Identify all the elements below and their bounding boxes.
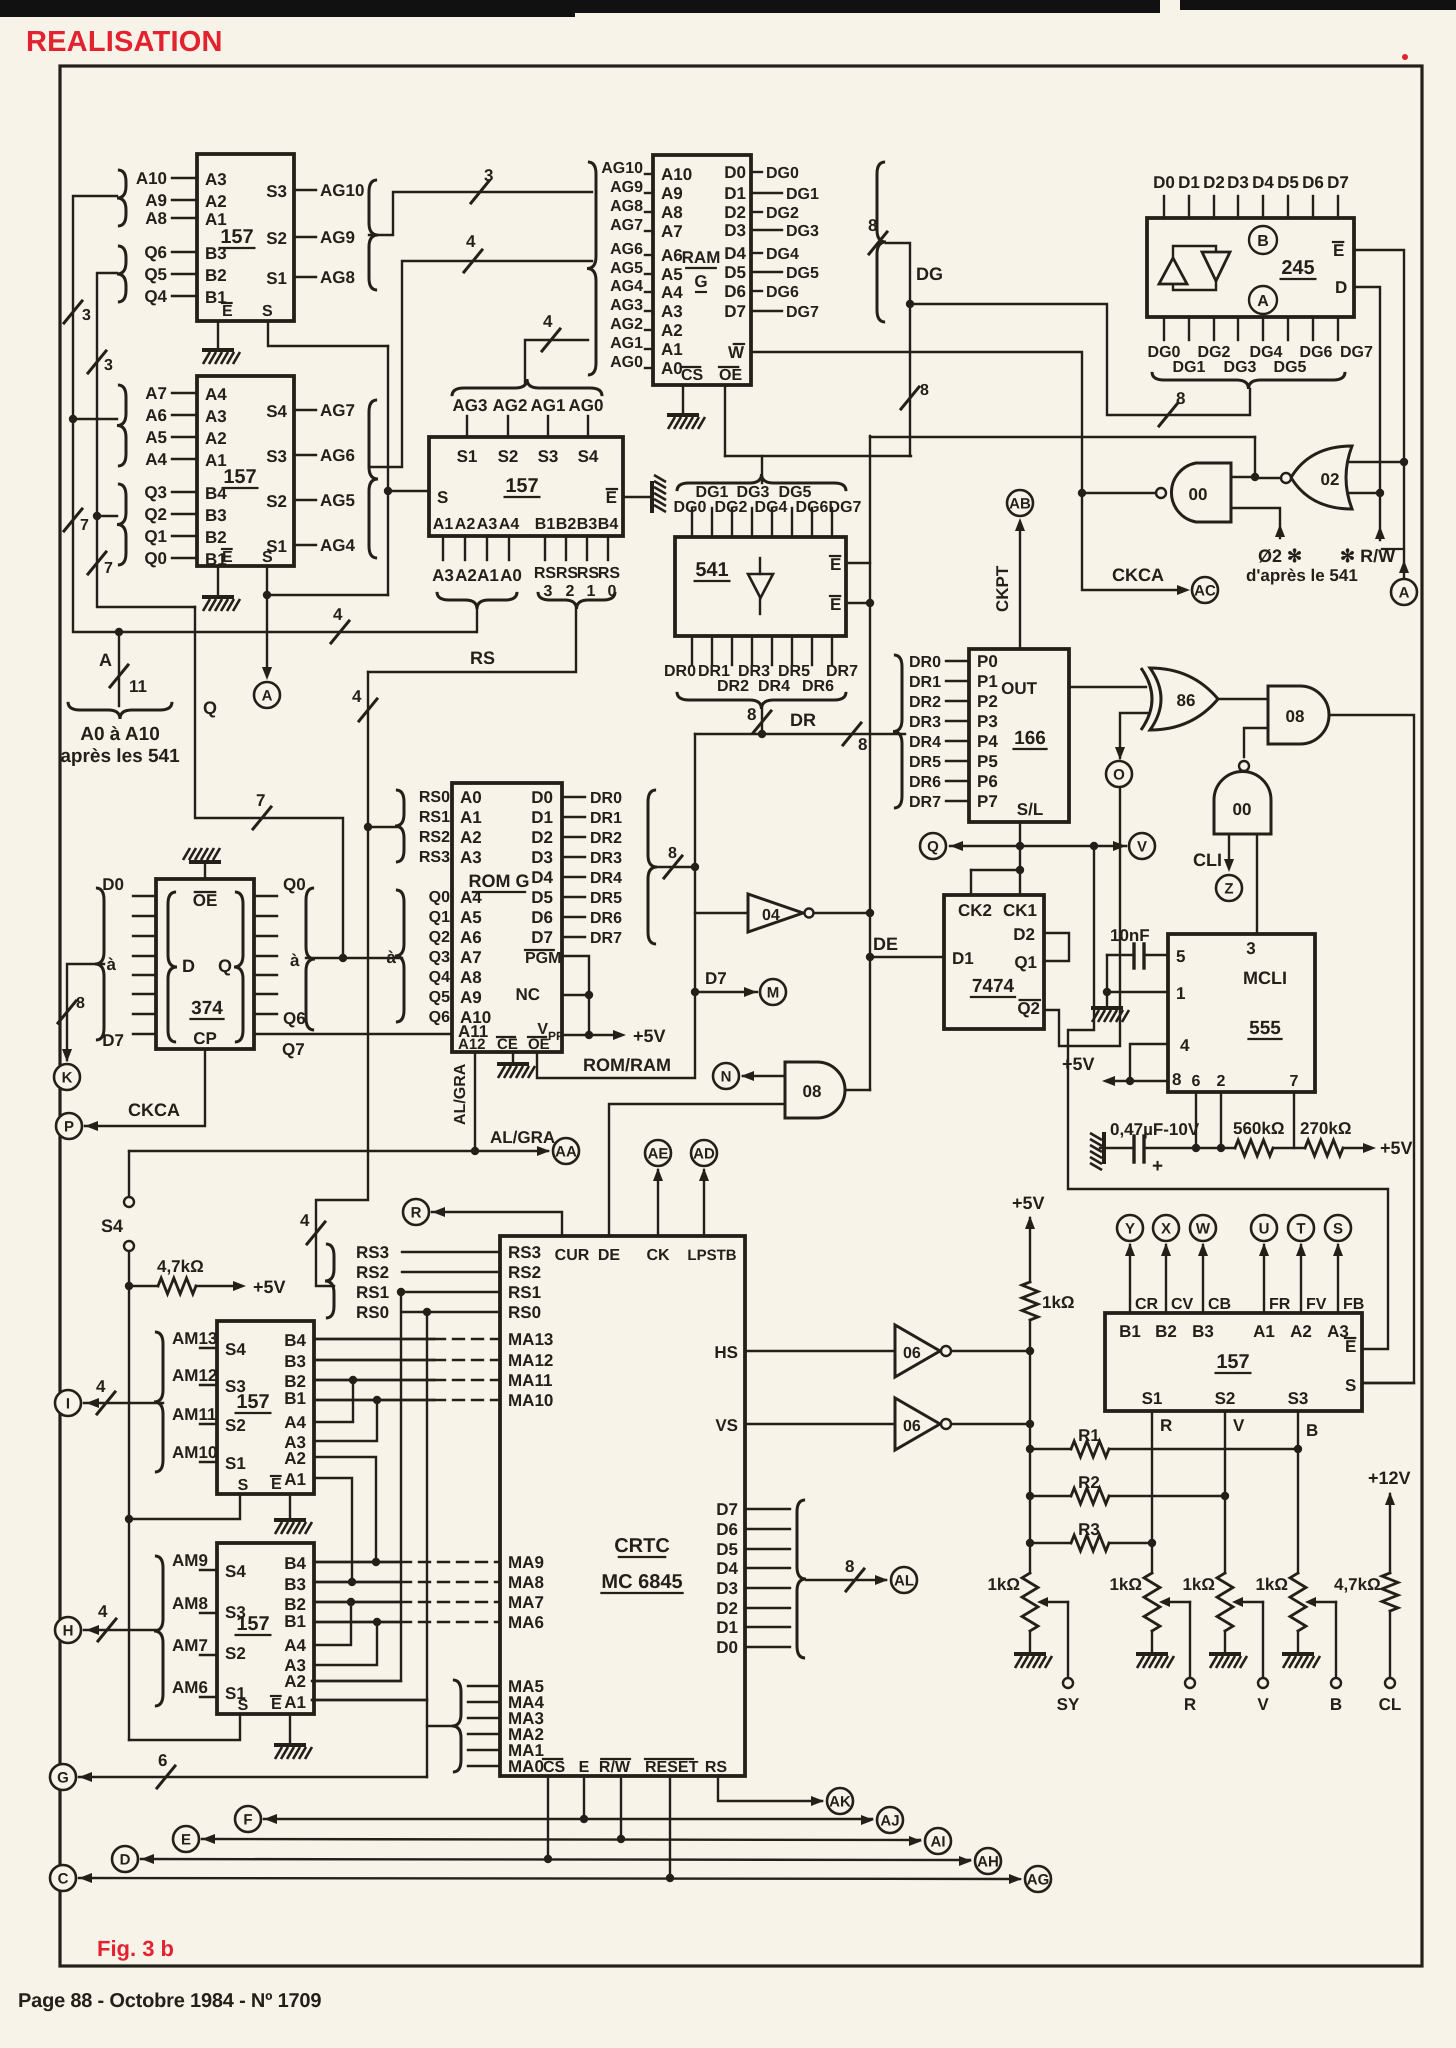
- svg-text:AG7: AG7: [320, 401, 355, 420]
- svg-text:A1: A1: [284, 1470, 306, 1489]
- pins U2 left stubs: [172, 392, 197, 394]
- svg-text:AJ: AJ: [880, 1812, 899, 1829]
- svg-text:A10: A10: [661, 165, 692, 184]
- svg-text:MA11: MA11: [508, 1371, 552, 1390]
- pins U2 right stubs S4-S1: [294, 409, 316, 411]
- svg-text:D0: D0: [724, 163, 746, 182]
- svg-text:AL/GRA: AL/GRA: [452, 1063, 469, 1125]
- pins U14 left + AM labels: [200, 1569, 217, 1571]
- svg-text:Q1: Q1: [1014, 953, 1037, 972]
- resistor 4,7k pullup: [129, 1285, 158, 1287]
- wire Q-V horizontal: [950, 845, 1126, 847]
- svg-text:D1: D1: [531, 808, 553, 827]
- svg-text:S: S: [1345, 1376, 1356, 1395]
- svg-text:MA0: MA0: [508, 1757, 544, 1776]
- svg-text:1kΩ: 1kΩ: [987, 1575, 1020, 1594]
- svg-text:B4: B4: [598, 516, 619, 533]
- terminal AE: [645, 1140, 671, 1166]
- svg-text:8: 8: [76, 995, 85, 1012]
- red registration dot: [1402, 54, 1408, 60]
- svg-text:S2: S2: [225, 1416, 246, 1435]
- svg-text:3: 3: [104, 357, 113, 374]
- RAM G block U3: [653, 155, 751, 385]
- svg-text:FR: FR: [1269, 1296, 1291, 1313]
- brace RAM G address inputs: [587, 162, 596, 375]
- svg-text:AB: AB: [1009, 495, 1031, 512]
- svg-text:FB: FB: [1343, 1296, 1364, 1313]
- bus slash 3 on x97: [88, 351, 106, 373]
- svg-text:AM8: AM8: [172, 1594, 208, 1613]
- svg-text:DR2: DR2: [909, 694, 941, 711]
- svg-text:AA: AA: [555, 1143, 577, 1160]
- svg-text:RS2: RS2: [508, 1263, 541, 1282]
- terminal K: [54, 1064, 80, 1090]
- svg-text:D2: D2: [716, 1599, 738, 1618]
- 374 inner braces D Q: [168, 892, 177, 1042]
- terminal F: [235, 1806, 261, 1832]
- flip-flop U8 7474: [944, 895, 1044, 1029]
- svg-text:AG10: AG10: [320, 181, 364, 200]
- svg-text:DG1: DG1: [786, 186, 819, 203]
- terminal N: [713, 1063, 739, 1089]
- pins U5 bottom stubs: [442, 536, 444, 560]
- svg-text:A2: A2: [205, 192, 227, 211]
- wires CRTC D7-D0 stubs: [745, 1508, 790, 1510]
- svg-text:ROM/RAM: ROM/RAM: [583, 1055, 671, 1075]
- svg-text:A: A: [1257, 293, 1269, 310]
- brace Q6-Q4 group: [117, 246, 126, 302]
- svg-text:166: 166: [1014, 728, 1046, 749]
- svg-text:A4: A4: [284, 1413, 306, 1432]
- svg-text:après les 541: après les 541: [60, 746, 180, 767]
- svg-text:A4: A4: [205, 385, 227, 404]
- svg-text:CKCA: CKCA: [1112, 565, 1164, 585]
- svg-text:D1: D1: [952, 949, 974, 968]
- svg-text:E: E: [271, 1696, 282, 1713]
- svg-text:4,7kΩ: 4,7kΩ: [1334, 1575, 1381, 1594]
- svg-text:4: 4: [96, 1377, 106, 1396]
- svg-text:10nF: 10nF: [1110, 926, 1150, 945]
- svg-text:AG8: AG8: [320, 268, 355, 287]
- svg-text:Q7: Q7: [282, 1040, 305, 1059]
- svg-text:AG: AG: [1027, 1871, 1050, 1888]
- svg-text:3: 3: [82, 307, 91, 324]
- wire RS1 vertical to 157-6 A2: [312, 1292, 401, 1681]
- svg-text:A0: A0: [460, 788, 482, 807]
- svg-text:MA9: MA9: [508, 1553, 544, 1572]
- svg-text:S: S: [437, 488, 448, 507]
- wire AL/GRA horizontal to AA: [129, 1150, 548, 1152]
- wire Q2- output: [1044, 784, 1120, 1046]
- svg-text:DR6: DR6: [590, 910, 622, 927]
- wire MA brace trunk to G line: [427, 1725, 456, 1727]
- svg-text:A1: A1: [661, 340, 683, 359]
- terminal G: [50, 1764, 76, 1790]
- svg-text:MCLI: MCLI: [1243, 968, 1287, 988]
- capacitor C1 10nF: [1144, 954, 1168, 956]
- wire E245 vertical: [1354, 250, 1404, 462]
- svg-text:X: X: [1161, 1220, 1171, 1237]
- AND gate 08 (top): [1268, 686, 1329, 744]
- svg-text:P4: P4: [977, 732, 998, 751]
- pins RAM G left stubs + AG labels: [645, 173, 653, 175]
- resistor R 560k: [1235, 1140, 1273, 1156]
- svg-text:B1: B1: [284, 1612, 306, 1631]
- terminal AH: [975, 1848, 1001, 1874]
- svg-text:Q3: Q3: [144, 483, 167, 502]
- terminal C: [50, 1865, 76, 1891]
- svg-text:1kΩ: 1kΩ: [1255, 1575, 1288, 1594]
- terminal Y: [1117, 1215, 1143, 1241]
- wire HS inverted to R1 vertical: [952, 1350, 1030, 1352]
- svg-text:A3: A3: [460, 848, 482, 867]
- wire NAND bottom input from phi2: [1231, 508, 1280, 538]
- svg-text:Q2: Q2: [144, 505, 167, 524]
- svg-text:B4: B4: [284, 1554, 306, 1573]
- svg-text:O: O: [1113, 766, 1125, 783]
- wire S pin U2 to S net: [267, 566, 388, 595]
- svg-text:CS: CS: [543, 1759, 566, 1776]
- svg-text:AG7: AG7: [610, 217, 643, 234]
- svg-text:A2: A2: [284, 1672, 306, 1691]
- wire AND08-2 output up to 04: [845, 1089, 870, 1091]
- svg-text:S: S: [262, 549, 273, 566]
- svg-text:D4: D4: [1252, 173, 1274, 192]
- svg-text:4: 4: [352, 687, 362, 706]
- svg-text:A0: A0: [500, 566, 522, 585]
- brace A10-A8 group: [117, 170, 126, 226]
- shift register U7 166: [969, 649, 1069, 822]
- svg-text:AG5: AG5: [610, 260, 643, 277]
- pins 374 right stubs: [254, 895, 277, 897]
- svg-text:G: G: [694, 272, 707, 291]
- svg-text:RS: RS: [705, 1759, 728, 1776]
- svg-text:D7: D7: [1327, 173, 1349, 192]
- ground under cap: [1091, 1008, 1129, 1022]
- svg-text:CR: CR: [1135, 1296, 1159, 1313]
- svg-text:V: V: [1257, 1695, 1269, 1714]
- svg-text:DR2: DR2: [717, 678, 749, 695]
- svg-text:555: 555: [1249, 1018, 1281, 1039]
- page top black scan bar: [0, 0, 1160, 13]
- svg-text:DG7: DG7: [1340, 344, 1373, 361]
- svg-text:D4: D4: [716, 1559, 738, 1578]
- svg-text:RS2: RS2: [419, 829, 450, 846]
- wires RS3-RS0 into CRTC: [402, 1251, 500, 1253]
- pins 541 top: [691, 508, 693, 537]
- svg-text:157: 157: [220, 226, 253, 248]
- svg-text:A1: A1: [433, 516, 454, 533]
- svg-text:00: 00: [1233, 800, 1252, 819]
- svg-text:OUT: OUT: [1001, 679, 1038, 698]
- svg-text:CV: CV: [1171, 1296, 1194, 1313]
- svg-text:DG: DG: [916, 264, 943, 284]
- svg-text:R: R: [411, 1204, 422, 1221]
- svg-text:DG6: DG6: [796, 499, 829, 516]
- wire D bus to K: [67, 964, 104, 1060]
- potentiometer P4 1k B: [1290, 1573, 1306, 1631]
- brace DG under 245: [1152, 372, 1345, 389]
- wire DG bus from 245 to DG trunk: [910, 304, 1250, 415]
- svg-text:A7: A7: [661, 222, 683, 241]
- svg-text:Q2: Q2: [429, 929, 450, 946]
- svg-text:D: D: [1335, 278, 1347, 297]
- terminal D: [112, 1846, 138, 1872]
- brace AG3-AG0 to 157 U5: [452, 379, 602, 396]
- svg-text:AG3: AG3: [610, 297, 643, 314]
- svg-text:FV: FV: [1306, 1296, 1327, 1313]
- svg-text:A2: A2: [1290, 1322, 1312, 1341]
- svg-text:7: 7: [104, 560, 113, 577]
- terminal I: [55, 1390, 81, 1416]
- svg-text:S3: S3: [1288, 1389, 1309, 1408]
- wire OUT of 166 to XOR: [1069, 686, 1146, 688]
- wire S net stub into U5: [388, 490, 429, 492]
- svg-text:B: B: [1257, 233, 1269, 250]
- svg-text:A: A: [262, 687, 273, 704]
- svg-text:4: 4: [1180, 1036, 1190, 1055]
- wire DR trunk from 541: [761, 709, 763, 734]
- svg-text:DR: DR: [790, 710, 816, 730]
- svg-text:D3: D3: [716, 1579, 738, 1598]
- svg-text:NC: NC: [515, 985, 540, 1004]
- svg-text:Q3: Q3: [429, 949, 450, 966]
- svg-text:DR6: DR6: [802, 678, 834, 695]
- pins U13 left + AM labels: [200, 1347, 217, 1349]
- svg-text:DG1: DG1: [1173, 359, 1206, 376]
- potentiometer P2 1k R: [1144, 1573, 1160, 1631]
- inverter 04: [748, 894, 803, 932]
- svg-text:D6: D6: [1302, 173, 1324, 192]
- svg-text:B: B: [1330, 1695, 1342, 1714]
- svg-text:DG1: DG1: [696, 484, 729, 501]
- wires MA5-MA0 stubs + brace: [468, 1685, 500, 1687]
- svg-text:A3: A3: [432, 566, 454, 585]
- svg-text:B3: B3: [284, 1352, 306, 1371]
- svg-text:S2: S2: [225, 1644, 246, 1663]
- wire A7-A4 brace trunk: [73, 418, 117, 420]
- svg-text:D0: D0: [716, 1638, 738, 1657]
- svg-text:AG0: AG0: [610, 354, 643, 371]
- svg-text:157: 157: [236, 1391, 269, 1413]
- svg-text:8: 8: [1172, 1070, 1181, 1089]
- svg-text:RS3: RS3: [508, 1243, 541, 1262]
- svg-text:AG0: AG0: [569, 396, 604, 415]
- pins U1 left stubs: [172, 177, 197, 179]
- wire S1 column R: [1151, 1411, 1153, 1573]
- svg-text:HS: HS: [714, 1343, 738, 1362]
- svg-text:AH: AH: [977, 1853, 999, 1870]
- svg-text:K: K: [62, 1069, 73, 1086]
- svg-text:OE: OE: [193, 891, 218, 910]
- svg-text:DG7: DG7: [829, 499, 862, 516]
- transceiver U4 245: [1147, 218, 1354, 317]
- brace RS into CRTC: [325, 1244, 334, 1318]
- svg-text:E: E: [830, 555, 841, 574]
- wire XOR bottom input from O: [1120, 713, 1148, 758]
- svg-text:E: E: [579, 1759, 590, 1776]
- wire E pin of U15 loop to Q/V net: [1068, 846, 1388, 1349]
- svg-text:DG5: DG5: [786, 265, 819, 282]
- svg-text:A0 à A10: A0 à A10: [80, 724, 160, 745]
- svg-text:R: R: [1184, 1695, 1196, 1714]
- NAND gate 00 (top, mirrored): [1171, 463, 1231, 522]
- svg-text:04: 04: [762, 907, 780, 924]
- svg-text:157: 157: [223, 466, 256, 488]
- wire H bus: [84, 1629, 157, 1631]
- wire A bus left vertical x=73: [73, 196, 117, 630]
- svg-text:AG4: AG4: [610, 278, 643, 295]
- terminal AL: [891, 1567, 917, 1593]
- svg-text:AG1: AG1: [531, 396, 566, 415]
- ROM U11 ROM G: [452, 783, 562, 1052]
- svg-text:7: 7: [80, 517, 89, 534]
- wire U13 B4 B3 outputs to MA lines: [314, 1338, 434, 1340]
- svg-text:MA10: MA10: [508, 1391, 553, 1410]
- terminal V: [1129, 833, 1155, 859]
- pins 555 bottom stubs: [1195, 1092, 1197, 1148]
- wire S of U2 down to terminal A: [266, 595, 268, 668]
- svg-text:P7: P7: [977, 792, 998, 811]
- wire U14 B4 B3 to MA9 MA8: [314, 1561, 400, 1563]
- svg-text:S1: S1: [457, 447, 478, 466]
- svg-text:D7: D7: [102, 1031, 124, 1050]
- svg-text:DG4: DG4: [755, 499, 788, 516]
- svg-text:Fig. 3 b: Fig. 3 b: [97, 1936, 174, 1961]
- wire NAND output to CKCA net: [1082, 492, 1156, 494]
- pins U5 top S1-S4 from AG3-AG0: [466, 416, 468, 437]
- wire Q bus left vertical x=97: [97, 273, 195, 607]
- wire CK2 jog: [970, 870, 972, 895]
- svg-text:D: D: [120, 1851, 131, 1868]
- wire AND 08 lower input from NAND below: [1244, 728, 1268, 757]
- 245 internal buffer symbols: [1173, 246, 1216, 258]
- svg-text:Q5: Q5: [429, 989, 450, 1006]
- svg-text:Q6: Q6: [429, 1009, 450, 1026]
- svg-text:VS: VS: [715, 1416, 738, 1435]
- svg-text:DR0: DR0: [909, 654, 941, 671]
- brace Q outputs of 374: [306, 888, 315, 1030]
- svg-text:B4: B4: [284, 1331, 306, 1350]
- svg-text:B2: B2: [205, 266, 227, 285]
- wire U13 B2-A4 jog: [314, 1379, 434, 1381]
- svg-text:A: A: [99, 650, 112, 670]
- brace Q into ROM G: [395, 890, 404, 1022]
- svg-text:RESET: RESET: [645, 1759, 699, 1776]
- svg-text:7474: 7474: [972, 976, 1015, 997]
- svg-text:4: 4: [300, 1211, 310, 1230]
- ground at U5 E pin: [623, 496, 650, 498]
- terminal E: [173, 1826, 199, 1852]
- multiplexer U13 157 (AM13-AM10): [217, 1321, 314, 1494]
- svg-text:DG4: DG4: [766, 246, 799, 263]
- svg-text:A4: A4: [661, 283, 683, 302]
- switch S4 contacts: [128, 1151, 130, 1196]
- svg-text:Q0: Q0: [144, 549, 167, 568]
- wire U14 B1-A3 jog on MA6: [314, 1621, 400, 1623]
- svg-text:MA12: MA12: [508, 1351, 553, 1370]
- pins 374 left stubs: [133, 895, 156, 897]
- svg-text:S1: S1: [266, 269, 287, 288]
- svg-text:S1: S1: [1142, 1389, 1163, 1408]
- svg-text:D1: D1: [1178, 173, 1200, 192]
- svg-text:S4: S4: [266, 402, 287, 421]
- svg-text:Q: Q: [203, 698, 217, 718]
- svg-text:374: 374: [191, 998, 223, 1019]
- wire U13 B1-A3 jog: [314, 1399, 434, 1401]
- svg-text:D1: D1: [716, 1618, 738, 1637]
- svg-text:DG3: DG3: [1224, 359, 1257, 376]
- svg-text:3: 3: [1246, 939, 1255, 958]
- svg-text:R/W: R/W: [599, 1759, 631, 1776]
- svg-text:DR0: DR0: [590, 790, 622, 807]
- wire AL bus to AL terminal: [806, 1579, 886, 1581]
- svg-text:à: à: [290, 951, 300, 970]
- svg-text:7: 7: [1290, 1073, 1299, 1090]
- wire A/11 drop to label: [118, 632, 120, 706]
- svg-text:DR3: DR3: [590, 850, 622, 867]
- svg-text:CK: CK: [646, 1247, 670, 1264]
- svg-text:8: 8: [868, 216, 877, 235]
- svg-text:08: 08: [803, 1082, 822, 1101]
- svg-text:DG0: DG0: [766, 165, 799, 182]
- brace A3-A0 under U5: [437, 592, 517, 609]
- svg-text:CL: CL: [1379, 1695, 1402, 1714]
- wire ROM DR trunk to DR bus: [658, 866, 695, 868]
- svg-text:1kΩ: 1kΩ: [1182, 1575, 1215, 1594]
- wire AG10-8 3-bus to RAM G: [369, 192, 592, 235]
- svg-text:AC: AC: [1194, 582, 1216, 599]
- svg-text:157: 157: [1216, 1351, 1249, 1373]
- svg-text:P0: P0: [977, 652, 998, 671]
- brace DR out of ROM G: [648, 790, 657, 944]
- wire U14 A2 to RS1 vertical: [314, 1680, 401, 1682]
- wire CK pin to AE: [657, 1170, 659, 1236]
- svg-text:S4: S4: [101, 1216, 123, 1236]
- svg-text:R: R: [1160, 1416, 1172, 1435]
- svg-text:DG7: DG7: [786, 304, 819, 321]
- terminal AC: [1192, 577, 1218, 603]
- svg-text:A2: A2: [455, 516, 476, 533]
- svg-text:560kΩ: 560kΩ: [1233, 1119, 1284, 1138]
- svg-text:7: 7: [256, 791, 265, 810]
- wire LPSTB to AD: [703, 1170, 705, 1236]
- svg-text:A3: A3: [205, 407, 227, 426]
- svg-text:OE: OE: [719, 367, 742, 384]
- svg-text:A10: A10: [136, 169, 167, 188]
- wire XOR out to AND in: [1218, 698, 1268, 700]
- svg-text:à: à: [107, 955, 117, 974]
- pins 541 bottom: [691, 636, 693, 665]
- svg-text:E: E: [1345, 1337, 1356, 1356]
- ground U13 E pin: [289, 1494, 291, 1518]
- svg-text:D2: D2: [1013, 925, 1035, 944]
- svg-text:S2: S2: [1215, 1389, 1236, 1408]
- svg-text:CK2: CK2: [958, 901, 992, 920]
- svg-text:V: V: [1233, 1416, 1245, 1435]
- wire DR bus left branch down x=695: [537, 734, 695, 1078]
- wire cap to ground + pin1: [1106, 955, 1108, 1006]
- svg-text:DG2: DG2: [715, 499, 748, 516]
- multiplexer U5 157 (horizontal): [429, 437, 623, 536]
- svg-text:A3: A3: [205, 170, 227, 189]
- svg-text:D3: D3: [1227, 173, 1249, 192]
- multiplexer U1 157 (top left): [197, 154, 294, 321]
- svg-text:CE: CE: [497, 1036, 518, 1053]
- svg-text:OE: OE: [528, 1036, 550, 1053]
- svg-text:AG1: AG1: [610, 335, 643, 352]
- svg-text:AD: AD: [693, 1145, 715, 1162]
